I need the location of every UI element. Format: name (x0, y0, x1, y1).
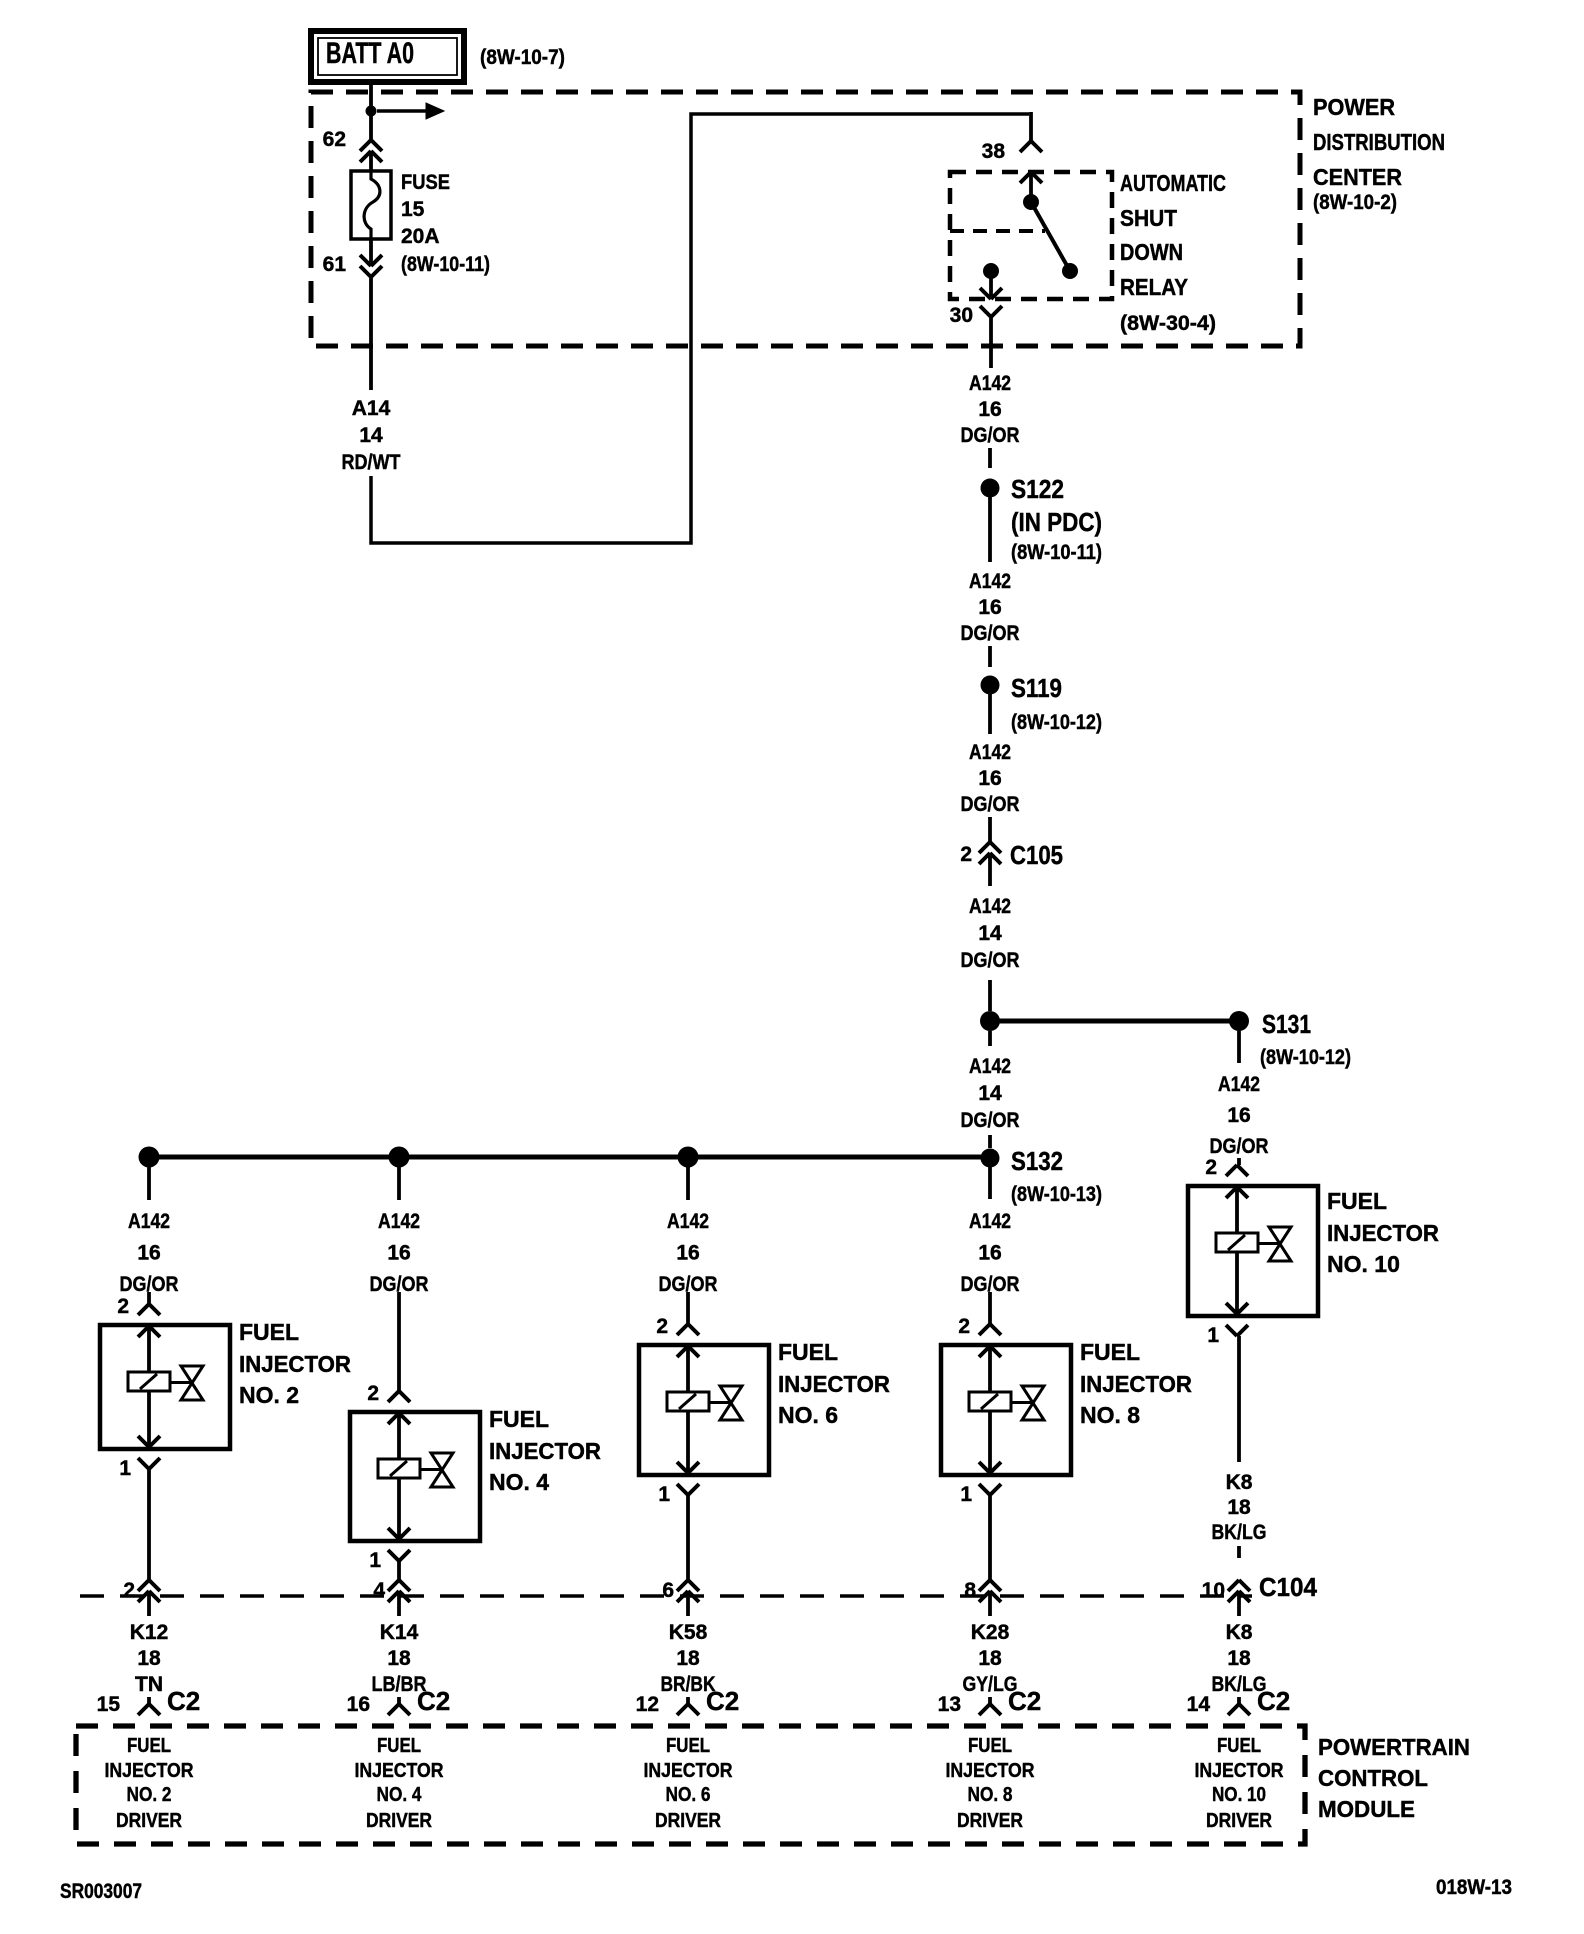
svg-text:S131: S131 (1262, 1009, 1311, 1039)
svg-text:FUEL: FUEL (968, 1735, 1012, 1757)
svg-text:DG/OR: DG/OR (961, 1109, 1020, 1132)
svg-text:4: 4 (373, 1579, 385, 1602)
svg-text:18: 18 (676, 1647, 700, 1670)
svg-text:NO. 10: NO. 10 (1212, 1784, 1266, 1806)
svg-text:2: 2 (117, 1295, 129, 1318)
svg-text:18: 18 (1227, 1647, 1251, 1670)
svg-text:(8W-10-11): (8W-10-11) (401, 253, 490, 276)
svg-text:FUEL: FUEL (1217, 1735, 1261, 1757)
svg-text:INJECTOR: INJECTOR (239, 1351, 351, 1377)
svg-text:BATT A0: BATT A0 (326, 37, 414, 70)
svg-text:C104: C104 (1259, 1572, 1318, 1602)
svg-text:DRIVER: DRIVER (116, 1810, 182, 1832)
svg-text:DISTRIBUTION: DISTRIBUTION (1313, 129, 1445, 155)
svg-text:NO. 10: NO. 10 (1327, 1251, 1400, 1277)
svg-text:K58: K58 (669, 1621, 708, 1644)
svg-text:15: 15 (401, 198, 425, 221)
svg-text:16: 16 (978, 767, 1001, 790)
svg-text:FUEL: FUEL (239, 1319, 299, 1345)
svg-text:POWER: POWER (1313, 94, 1395, 120)
svg-text:(8W-10-12): (8W-10-12) (1260, 1046, 1351, 1069)
svg-text:DG/OR: DG/OR (961, 793, 1020, 816)
svg-text:INJECTOR: INJECTOR (489, 1438, 601, 1464)
svg-text:DOWN: DOWN (1120, 239, 1183, 265)
svg-text:NO. 8: NO. 8 (968, 1784, 1013, 1806)
svg-text:C2: C2 (417, 1686, 450, 1716)
svg-text:FUEL: FUEL (666, 1735, 710, 1757)
svg-text:C105: C105 (1010, 840, 1063, 870)
svg-text:2: 2 (656, 1315, 668, 1338)
svg-text:A142: A142 (969, 1055, 1011, 1078)
svg-text:SR003007: SR003007 (60, 1880, 142, 1903)
svg-text:DRIVER: DRIVER (957, 1810, 1023, 1832)
svg-text:A142: A142 (969, 741, 1011, 764)
svg-text:CENTER: CENTER (1313, 164, 1402, 190)
svg-text:DG/OR: DG/OR (961, 622, 1020, 645)
svg-text:TN: TN (135, 1673, 163, 1696)
svg-text:18: 18 (137, 1647, 161, 1670)
svg-text:NO. 4: NO. 4 (489, 1469, 549, 1495)
svg-text:16: 16 (137, 1242, 160, 1265)
svg-text:12: 12 (636, 1693, 659, 1716)
svg-text:15: 15 (97, 1693, 121, 1716)
svg-text:K28: K28 (971, 1621, 1010, 1644)
svg-text:DRIVER: DRIVER (366, 1810, 432, 1832)
svg-text:2: 2 (1205, 1156, 1217, 1179)
svg-text:DG/OR: DG/OR (961, 949, 1020, 972)
svg-text:A14: A14 (352, 397, 391, 420)
svg-text:NO. 2: NO. 2 (239, 1382, 299, 1408)
svg-text:6: 6 (662, 1579, 674, 1602)
svg-text:2: 2 (367, 1382, 379, 1405)
svg-text:S132: S132 (1011, 1146, 1063, 1176)
svg-text:DG/OR: DG/OR (961, 424, 1020, 447)
svg-text:C2: C2 (1008, 1686, 1041, 1716)
svg-text:61: 61 (323, 253, 347, 276)
svg-text:FUEL: FUEL (1080, 1339, 1140, 1365)
svg-text:BK/LG: BK/LG (1212, 1521, 1267, 1544)
svg-text:DRIVER: DRIVER (655, 1810, 721, 1832)
svg-text:K8: K8 (1226, 1621, 1253, 1644)
svg-text:1: 1 (119, 1457, 131, 1480)
svg-text:K14: K14 (380, 1621, 419, 1644)
svg-text:A142: A142 (969, 570, 1011, 593)
svg-text:DG/OR: DG/OR (1210, 1135, 1269, 1158)
svg-text:30: 30 (950, 304, 973, 327)
svg-text:NO. 8: NO. 8 (1080, 1402, 1140, 1428)
svg-text:SHUT: SHUT (1120, 205, 1177, 231)
svg-text:(8W-10-12): (8W-10-12) (1011, 711, 1102, 734)
svg-text:14: 14 (978, 1082, 1002, 1105)
svg-text:A142: A142 (1218, 1073, 1260, 1096)
svg-text:INJECTOR: INJECTOR (1195, 1760, 1284, 1782)
svg-text:FUEL: FUEL (377, 1735, 421, 1757)
svg-text:13: 13 (938, 1693, 961, 1716)
svg-text:RD/WT: RD/WT (342, 451, 401, 474)
svg-text:10: 10 (1202, 1579, 1225, 1602)
svg-text:MODULE: MODULE (1318, 1796, 1415, 1822)
svg-text:INJECTOR: INJECTOR (355, 1760, 444, 1782)
svg-text:(8W-10-11): (8W-10-11) (1011, 541, 1102, 564)
svg-text:16: 16 (347, 1693, 370, 1716)
svg-text:2: 2 (960, 843, 972, 866)
svg-text:INJECTOR: INJECTOR (1080, 1371, 1192, 1397)
svg-text:NO. 2: NO. 2 (127, 1784, 172, 1806)
svg-text:INJECTOR: INJECTOR (778, 1371, 890, 1397)
svg-text:2: 2 (958, 1315, 970, 1338)
svg-text:(8W-10-13): (8W-10-13) (1011, 1183, 1102, 1206)
svg-text:A142: A142 (378, 1210, 420, 1233)
svg-text:A142: A142 (128, 1210, 170, 1233)
svg-text:INJECTOR: INJECTOR (105, 1760, 194, 1782)
svg-text:INJECTOR: INJECTOR (1327, 1220, 1439, 1246)
svg-text:1: 1 (960, 1483, 972, 1506)
svg-text:FUEL: FUEL (778, 1339, 838, 1365)
svg-text:16: 16 (387, 1242, 410, 1265)
svg-text:(8W-30-4): (8W-30-4) (1120, 312, 1216, 335)
svg-text:1: 1 (369, 1549, 381, 1572)
svg-text:018W-13: 018W-13 (1436, 1876, 1512, 1899)
svg-text:S119: S119 (1011, 673, 1062, 703)
svg-text:8: 8 (964, 1579, 976, 1602)
svg-text:(8W-10-2): (8W-10-2) (1313, 191, 1397, 214)
svg-text:14: 14 (1187, 1693, 1211, 1716)
svg-text:FUEL: FUEL (127, 1735, 171, 1757)
svg-text:16: 16 (676, 1242, 699, 1265)
svg-text:16: 16 (978, 596, 1001, 619)
svg-text:C2: C2 (706, 1686, 739, 1716)
svg-text:62: 62 (323, 128, 346, 151)
svg-text:16: 16 (978, 398, 1001, 421)
svg-text:FUSE: FUSE (401, 171, 450, 194)
svg-text:20A: 20A (401, 225, 440, 248)
svg-text:CONTROL: CONTROL (1318, 1765, 1428, 1791)
svg-text:NO. 6: NO. 6 (778, 1402, 838, 1428)
svg-text:(8W-10-7): (8W-10-7) (480, 46, 565, 69)
svg-text:A142: A142 (969, 372, 1011, 395)
svg-text:FUEL: FUEL (489, 1406, 549, 1432)
svg-text:1: 1 (658, 1483, 670, 1506)
svg-text:14: 14 (359, 424, 383, 447)
svg-text:DRIVER: DRIVER (1206, 1810, 1272, 1832)
svg-text:A142: A142 (667, 1210, 709, 1233)
svg-text:2: 2 (123, 1579, 135, 1602)
svg-text:FUEL: FUEL (1327, 1188, 1387, 1214)
svg-text:A142: A142 (969, 895, 1011, 918)
svg-text:AUTOMATIC: AUTOMATIC (1120, 170, 1226, 196)
svg-text:INJECTOR: INJECTOR (946, 1760, 1035, 1782)
svg-text:18: 18 (978, 1647, 1002, 1670)
svg-text:K8: K8 (1226, 1471, 1253, 1494)
svg-text:(IN PDC): (IN PDC) (1011, 507, 1102, 537)
svg-text:A142: A142 (969, 1210, 1011, 1233)
svg-text:INJECTOR: INJECTOR (644, 1760, 733, 1782)
svg-text:NO. 4: NO. 4 (377, 1784, 423, 1806)
svg-text:1: 1 (1207, 1324, 1219, 1347)
svg-text:14: 14 (978, 922, 1002, 945)
svg-text:RELAY: RELAY (1120, 274, 1188, 300)
svg-text:NO. 6: NO. 6 (666, 1784, 711, 1806)
svg-text:16: 16 (978, 1242, 1001, 1265)
svg-text:16: 16 (1227, 1104, 1250, 1127)
svg-text:38: 38 (982, 140, 1006, 163)
svg-text:18: 18 (387, 1647, 411, 1670)
svg-text:S122: S122 (1011, 474, 1064, 504)
svg-text:18: 18 (1227, 1496, 1251, 1519)
svg-text:POWERTRAIN: POWERTRAIN (1318, 1734, 1470, 1760)
svg-text:C2: C2 (1257, 1686, 1290, 1716)
svg-text:K12: K12 (130, 1621, 169, 1644)
svg-text:C2: C2 (167, 1686, 200, 1716)
